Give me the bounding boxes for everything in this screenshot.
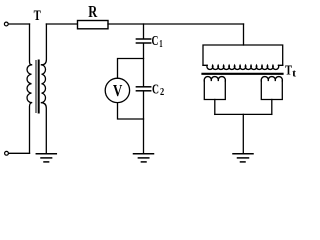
terminal bottom-left [5, 151, 9, 155]
svg-text:R: R [88, 2, 98, 21]
svg-text:1: 1 [159, 38, 162, 50]
Tt LV winding right loops [261, 77, 282, 81]
Tt LV winding left loops [204, 77, 225, 81]
terminal top-left [4, 22, 8, 26]
Tt HV winding scallops [207, 65, 279, 69]
voltmeter V [105, 78, 129, 102]
svg-text:T: T [34, 8, 41, 24]
voltmeter bottom lead [118, 103, 144, 119]
wire bottom-left terminal to transformer [9, 152, 30, 154]
Tt HV winding box [203, 45, 283, 65]
transformer T core [35, 61, 37, 113]
Tt LV winding right box [261, 81, 282, 100]
resistor R [78, 21, 109, 29]
svg-text:2: 2 [160, 86, 165, 98]
wire top node down to C1 [143, 24, 145, 39]
svg-text:V: V [113, 81, 123, 100]
wire into Tt [243, 24, 245, 45]
svg-text:C: C [152, 34, 159, 49]
transformer T primary lead top [30, 24, 32, 65]
Tt LV winding left box [204, 81, 225, 100]
wire C2 to ground [143, 91, 145, 153]
Tt core [203, 73, 283, 75]
lead from left box [214, 100, 216, 115]
wire top-left to transformer [8, 23, 29, 25]
wire transformer to resistor [46, 23, 77, 25]
lead from right box [271, 100, 273, 115]
wire resistor to Tt input [108, 23, 244, 25]
ground right [233, 153, 253, 155]
ground middle [134, 153, 154, 155]
capacitor C2 [136, 86, 150, 88]
wire bus to ground [242, 114, 244, 153]
wire C1 to C2 [143, 44, 145, 87]
svg-text:t: t [292, 68, 296, 80]
bottom bus [215, 113, 272, 115]
transformer T secondary winding [42, 65, 46, 103]
ground under transformer T [36, 153, 56, 155]
transformer T primary winding [27, 65, 31, 103]
transformer T primary lead bottom [30, 103, 32, 154]
capacitor C1 [136, 38, 150, 40]
transformer T secondary lead top [42, 24, 47, 65]
svg-text:C: C [152, 82, 159, 97]
transformer T secondary lead bottom [42, 103, 47, 154]
voltmeter top lead [118, 59, 144, 79]
